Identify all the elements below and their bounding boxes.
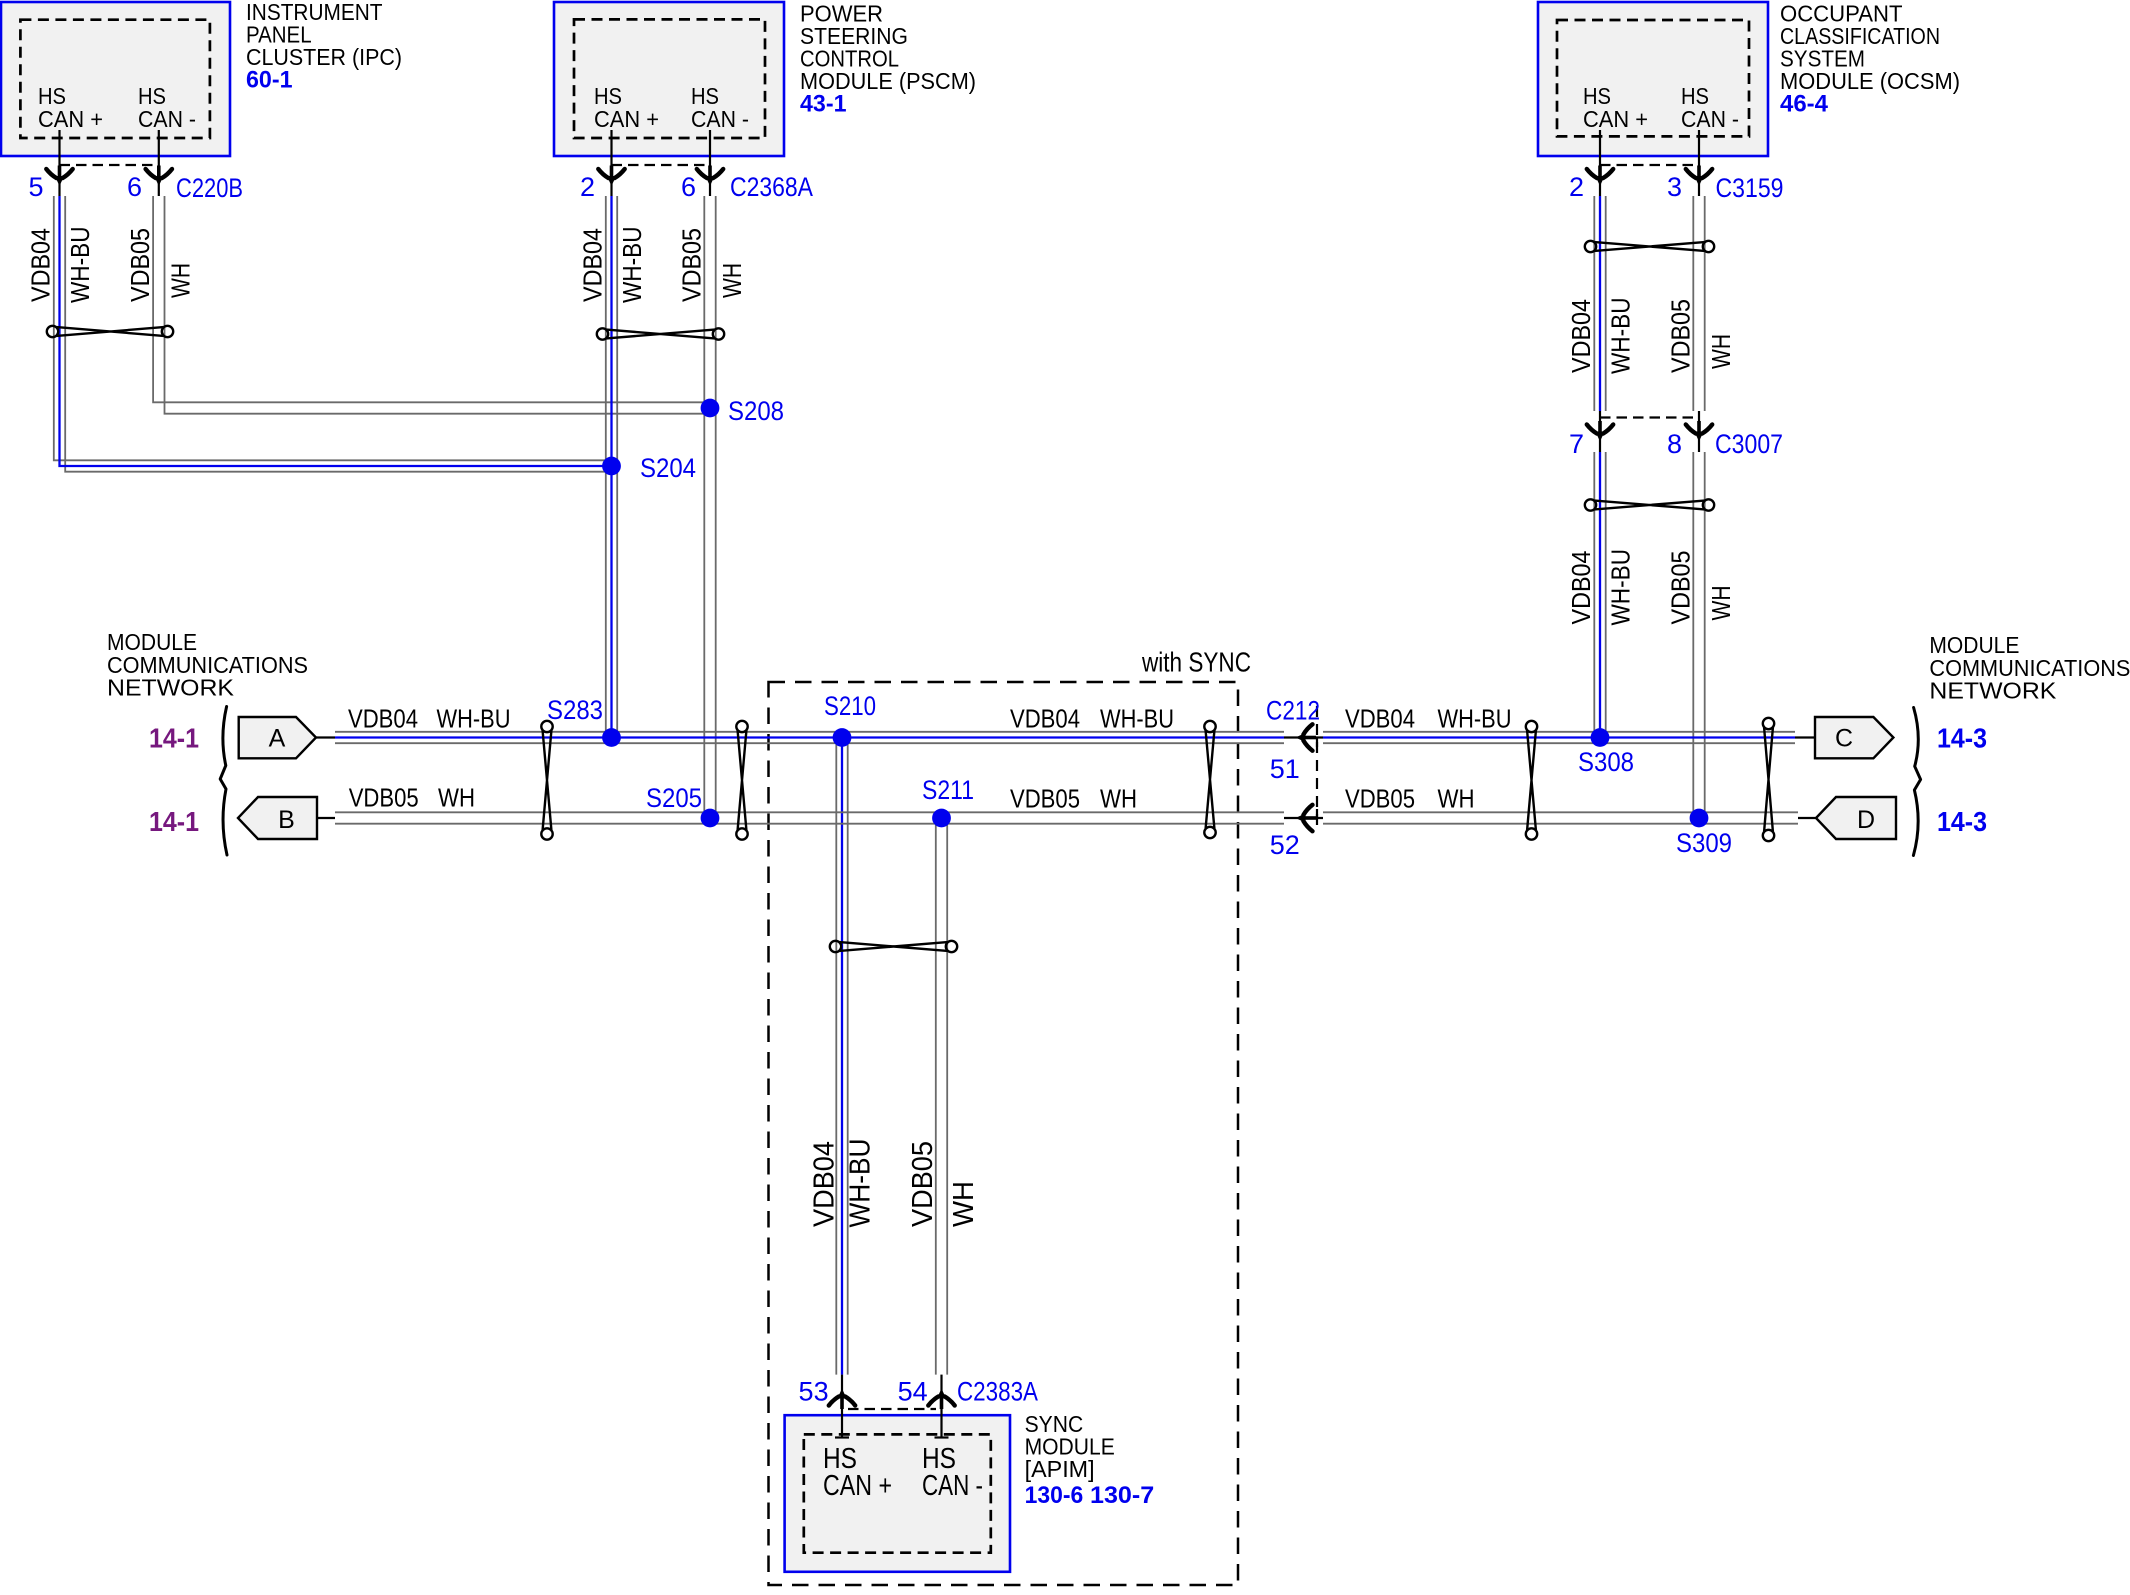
svg-text:52: 52 (1270, 830, 1300, 860)
svg-text:VDB05: VDB05 (125, 228, 155, 302)
svg-text:54: 54 (898, 1377, 928, 1407)
svg-text:B: B (278, 806, 295, 834)
svg-text:130-7: 130-7 (1090, 1482, 1154, 1509)
svg-text:A: A (269, 725, 286, 753)
svg-text:C220B: C220B (176, 173, 243, 203)
svg-text:S309: S309 (1676, 828, 1732, 858)
svg-text:WH-BU: WH-BU (65, 227, 95, 304)
svg-text:CAN +: CAN + (1583, 106, 1648, 132)
svg-text:VDB05: VDB05 (1665, 551, 1695, 625)
svg-text:60-1: 60-1 (246, 67, 293, 94)
svg-text:14-3: 14-3 (1937, 723, 1987, 754)
svg-text:VDB05: VDB05 (1010, 784, 1080, 814)
svg-text:WH-BU: WH-BU (1606, 549, 1636, 626)
svg-text:VDB04: VDB04 (348, 704, 418, 734)
svg-text:43-1: 43-1 (800, 91, 847, 118)
svg-text:S211: S211 (922, 775, 974, 805)
svg-text:WH-BU: WH-BU (845, 1139, 877, 1228)
svg-text:CAN +: CAN + (594, 106, 659, 132)
svg-text:WH: WH (717, 263, 747, 298)
svg-text:WH-BU: WH-BU (617, 227, 647, 304)
svg-text:VDB04: VDB04 (26, 228, 56, 302)
svg-text:C2368A: C2368A (730, 172, 813, 202)
svg-text:WH: WH (438, 783, 475, 813)
svg-text:C2383A: C2383A (957, 1377, 1038, 1407)
svg-text:CAN +: CAN + (38, 106, 103, 132)
svg-text:WH-BU: WH-BU (1100, 704, 1174, 734)
svg-text:7: 7 (1569, 429, 1584, 459)
svg-text:CAN -: CAN - (922, 1470, 983, 1502)
svg-text:CAN -: CAN - (691, 106, 749, 132)
svg-text:D: D (1857, 806, 1875, 834)
svg-text:with SYNC: with SYNC (1141, 647, 1251, 678)
svg-text:C: C (1835, 725, 1853, 753)
svg-text:WH: WH (1100, 784, 1137, 814)
svg-text:6: 6 (681, 172, 696, 202)
svg-text:WH-BU: WH-BU (437, 704, 511, 734)
svg-text:5: 5 (28, 172, 43, 202)
svg-text:53: 53 (799, 1377, 829, 1407)
svg-text:51: 51 (1270, 754, 1300, 784)
svg-text:14-1: 14-1 (149, 723, 199, 754)
svg-text:NETWORK: NETWORK (1929, 678, 2056, 704)
svg-text:CAN -: CAN - (1681, 106, 1739, 132)
svg-text:14-3: 14-3 (1937, 806, 1987, 837)
svg-text:3: 3 (1667, 172, 1682, 202)
svg-text:WH: WH (948, 1181, 980, 1227)
svg-text:VDB05: VDB05 (907, 1141, 939, 1227)
svg-text:S208: S208 (728, 396, 784, 426)
svg-text:C212: C212 (1266, 696, 1320, 726)
svg-text:VDB05: VDB05 (349, 783, 419, 813)
svg-text:8: 8 (1667, 429, 1682, 459)
svg-text:NETWORK: NETWORK (107, 675, 234, 701)
svg-text:VDB04: VDB04 (1566, 551, 1596, 625)
svg-text:S308: S308 (1578, 747, 1634, 777)
svg-text:WH-BU: WH-BU (1606, 298, 1636, 375)
svg-text:VDB05: VDB05 (1345, 784, 1415, 814)
svg-text:CAN -: CAN - (138, 106, 196, 132)
svg-text:VDB05: VDB05 (1665, 299, 1695, 373)
svg-text:2: 2 (1569, 172, 1584, 202)
svg-text:130-6: 130-6 (1025, 1482, 1084, 1509)
svg-text:VDB05: VDB05 (676, 228, 706, 302)
svg-text:WH: WH (1706, 586, 1736, 621)
svg-text:WH: WH (1438, 784, 1475, 814)
svg-text:14-1: 14-1 (149, 806, 199, 837)
svg-text:46-4: 46-4 (1780, 91, 1829, 118)
svg-text:CAN +: CAN + (823, 1470, 892, 1502)
svg-text:VDB04: VDB04 (1345, 704, 1415, 734)
svg-text:S204: S204 (640, 453, 696, 483)
svg-text:WH: WH (166, 263, 196, 298)
svg-text:WH: WH (1706, 334, 1736, 369)
svg-text:VDB04: VDB04 (808, 1141, 840, 1227)
svg-text:[APIM]: [APIM] (1025, 1456, 1095, 1482)
svg-text:WH-BU: WH-BU (1438, 704, 1512, 734)
svg-text:VDB04: VDB04 (1566, 299, 1596, 373)
svg-text:C3159: C3159 (1716, 173, 1784, 203)
svg-text:VDB04: VDB04 (1010, 704, 1080, 734)
svg-text:S205: S205 (646, 783, 702, 813)
svg-text:6: 6 (127, 172, 142, 202)
svg-text:2: 2 (580, 172, 595, 202)
svg-text:S210: S210 (824, 691, 876, 721)
svg-text:C3007: C3007 (1715, 429, 1783, 459)
svg-text:S283: S283 (547, 695, 603, 725)
svg-text:VDB04: VDB04 (578, 228, 608, 302)
